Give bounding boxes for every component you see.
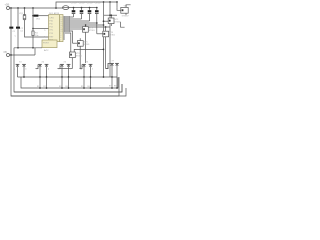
wire: VT6 base feed [63, 33, 71, 52]
wire: segment line g [70, 28, 83, 30]
svg-text:0В: 0В [4, 50, 7, 54]
wire: bus stub 6 [90, 77, 92, 89]
node: junction at 18,8 [17, 7, 19, 9]
wire: RST line to DD1 [33, 28, 49, 30]
wire: C1 to gnd terminal wire [10, 29, 12, 55]
svg-text:АЛС: АЛС [44, 49, 49, 52]
wire: VD1 down to R1 [32, 16, 34, 31]
resistor R1 [32, 31, 39, 37]
wire: R1 to ground line [32, 36, 34, 48]
svg-text:R8: R8 [114, 85, 116, 87]
svg-text:CPU: CPU [49, 17, 54, 19]
svg-text:10к: 10к [35, 35, 38, 37]
svg-text:КТ361: КТ361 [84, 44, 91, 46]
svg-text:b: b [25, 68, 27, 70]
wire: gnd line [10, 54, 36, 56]
svg-text:P13: P13 [49, 33, 52, 35]
node: junction at 11,55 [10, 54, 12, 56]
svg-text:КТ3107: КТ3107 [122, 16, 130, 18]
node: junction at 33,28.5 [32, 28, 34, 30]
svg-text:X7: X7 [112, 60, 115, 62]
wire: segment line e [70, 24, 104, 26]
svg-text:КТ361: КТ361 [89, 30, 96, 32]
wire: bottom bus line 3 [14, 84, 122, 92]
svg-text:КТ361: КТ361 [76, 56, 83, 58]
svg-text:P10: P10 [49, 20, 52, 22]
svg-text:X3: X3 [19, 61, 22, 63]
wire: bus stub 1 [39, 77, 41, 88]
svg-text:C1: C1 [13, 31, 16, 33]
wire: bus stub 8 [116, 77, 118, 89]
terminal X2 (GND) [4, 50, 10, 57]
wire: bus stub 2 [46, 77, 48, 89]
node: gnd junctions [17, 47, 19, 49]
svg-text:P12: P12 [49, 26, 52, 28]
wire: drop to C1 [10, 8, 12, 27]
svg-text:КТ361: КТ361 [109, 35, 116, 37]
wire: segment line a [70, 16, 74, 18]
svg-text:7: 7 [60, 39, 61, 41]
wire: left wrap outer [11, 55, 119, 96]
wire: stub near VT1 [121, 22, 125, 27]
svg-text:RST: RST [49, 36, 54, 38]
transistor VT1 [117, 5, 131, 18]
wire: diode to DD1 pin [38, 15, 48, 17]
node: junction at 33,15.7 [32, 15, 34, 17]
connector pin group 3 [58, 61, 71, 77]
wire: segment line c [70, 20, 90, 22]
resistor network R2-R9 [63, 16, 70, 31]
crystal ZQ1 [19, 13, 26, 20]
svg-text:X6: X6 [86, 61, 89, 63]
svg-text:a: a [14, 68, 16, 70]
capacitor C3 [71, 3, 77, 17]
wire: up from junction to top rail [56, 2, 117, 8]
wire: segment line b [70, 18, 82, 20]
svg-text:+5В: +5В [5, 3, 10, 7]
svg-text:X5: X5 [64, 61, 67, 63]
transistor VT2 [103, 14, 122, 26]
wire: bus stub 3 [61, 77, 63, 88]
svg-text:R5: R5 [81, 86, 83, 88]
svg-text:c: c [37, 68, 38, 70]
wire: segment line d [70, 22, 97, 24]
svg-text:R1: R1 [37, 86, 39, 88]
svg-text:R7: R7 [109, 85, 111, 87]
wire: left wrap inner [14, 48, 122, 92]
svg-text:P11: P11 [49, 23, 52, 25]
svg-text:R4: R4 [65, 86, 67, 88]
capacitor C5 [87, 3, 93, 21]
diode VD1 [34, 15, 41, 21]
wire: +5V rail top [10, 7, 63, 9]
connector pin group 5 [106, 60, 119, 77]
wire: bottom bus line 4 [11, 88, 126, 96]
svg-text:PORT: PORT [43, 42, 49, 44]
capacitor C6 [95, 3, 101, 34]
wire: segment line f [70, 26, 110, 28]
wire: bus stub 4 [68, 77, 70, 89]
wire: bottom bus line 1 [18, 76, 118, 78]
node: junction at 56,8 [55, 7, 57, 9]
svg-text:C3 10: C3 10 [71, 3, 77, 5]
wire: bus stub 5 [83, 77, 85, 88]
IC DD1 [44, 12, 65, 42]
capacitor C1 [9, 27, 16, 33]
svg-text:C4 10: C4 10 [79, 3, 85, 5]
wire: inter-transistor link [104, 14, 117, 16]
connector pin group 1 [14, 61, 27, 77]
svg-text:0,1: 0,1 [20, 30, 24, 32]
wire: drop to C2 [17, 8, 19, 27]
svg-text:R3: R3 [59, 86, 61, 88]
wire: drop to crystal [24, 8, 26, 15]
transistor VT6 [60, 49, 104, 69]
svg-text:5: 5 [44, 30, 46, 32]
svg-text:R6: R6 [87, 86, 89, 88]
wire: column 117 [116, 2, 118, 8]
wire: column 110 [109, 2, 111, 77]
fuse FU1 [62, 6, 68, 10]
wire: bus stub 7 [111, 77, 113, 88]
svg-text:C6 10: C6 10 [95, 3, 101, 5]
node: rail drop 1 [103, 1, 105, 3]
node: bus junctions [23, 76, 25, 78]
node: rail drop 2 [109, 1, 111, 3]
wire: segment line h [70, 31, 73, 43]
wire: C2 down to ground line [17, 29, 19, 48]
svg-text:C5 10: C5 10 [87, 3, 93, 5]
node: rail drop 3 [116, 1, 118, 3]
capacitor C4 [79, 3, 85, 19]
connector pin group 2 [36, 61, 50, 77]
wire: gnd riser [34, 48, 36, 55]
svg-text:g: g [81, 68, 82, 70]
svg-text:h: h [92, 68, 93, 70]
terminal X1 (+5V) [5, 3, 10, 10]
wire: bottom bus line 2 [21, 77, 118, 88]
wire: rail after fuse [69, 7, 97, 9]
sub-block DD1.2 [42, 40, 57, 52]
transistor VT4 [97, 27, 116, 69]
transistor VT3 [83, 24, 96, 63]
svg-text:C: C [15, 35, 17, 37]
node: junction at 11,8 [10, 7, 12, 9]
connector pin group 4 [80, 61, 94, 77]
svg-text:VD1: VD1 [36, 19, 41, 21]
node: junction at 33,8 [32, 7, 34, 9]
svg-text:R2: R2 [43, 86, 45, 88]
wire: drop to VD1 [32, 8, 34, 16]
svg-text:d: d [48, 68, 49, 70]
capacitor C2 [16, 27, 24, 33]
wire: ground bus y=47.8 [14, 47, 42, 49]
svg-text:X4: X4 [42, 61, 45, 63]
node: junction at 24.5,8 [24, 7, 26, 9]
wire: column 103.5 [103, 2, 105, 77]
wire: crystal to DD1 XTAL pin [25, 20, 49, 37]
svg-text:КТ361: КТ361 [115, 21, 122, 23]
transistor VT5 [73, 38, 91, 68]
